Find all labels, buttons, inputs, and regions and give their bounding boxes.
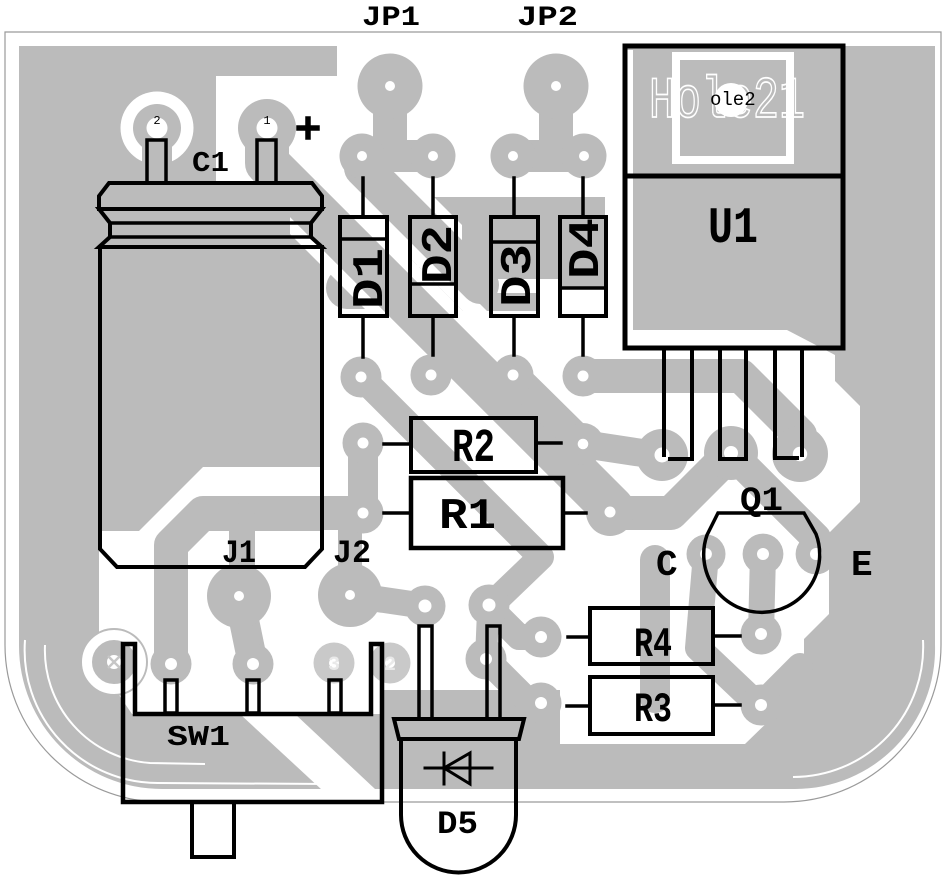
wire J2 pad up to horizontal trace	[338, 524, 362, 592]
diode D4 leads	[581, 178, 585, 355]
U1 tab hole	[714, 83, 748, 117]
pad Q1 E	[796, 534, 837, 575]
switch SW1 outline	[123, 644, 382, 802]
drill cross on mount pad	[108, 656, 120, 668]
pad D2 bottom	[411, 355, 452, 396]
copper pour: bottom band	[240, 690, 750, 789]
LED D5 flange	[394, 719, 524, 739]
clearance: diagonal wedge inside C1	[118, 467, 232, 552]
diode D3 leads	[512, 178, 516, 355]
svg-text:D3: D3	[494, 244, 544, 307]
pad SW1 mount with clearance ring	[80, 628, 148, 696]
svg-text:D4: D4	[562, 218, 612, 279]
pad JP2 top	[524, 54, 589, 119]
capacitor C1 body	[100, 247, 322, 567]
IC U1 pin 2	[720, 348, 746, 459]
white sliver inside U1 left edge	[627, 50, 633, 331]
clearance: pocket around pad 1	[216, 76, 340, 168]
wire JP2 bar	[513, 140, 584, 172]
wire D1 pad to D5-right (V shape)	[361, 377, 541, 607]
clearance: ring around pad 2	[121, 92, 194, 165]
copper pour: bottom-left corner	[19, 580, 321, 789]
clearance: channel below pad1 trace	[290, 208, 620, 564]
svg-text:C: C	[656, 545, 678, 586]
wire Q1 C to R3-right	[698, 554, 757, 704]
svg-text:2: 2	[153, 114, 160, 128]
switch SW1 pin 2	[247, 680, 259, 713]
pad J2	[318, 563, 382, 627]
resistor R2 outline	[411, 418, 536, 472]
copper pour: block around pad 2	[19, 76, 216, 184]
svg-text:R4: R4	[634, 621, 672, 669]
capacitor C1 crimp collar	[99, 209, 322, 247]
wire U1 pin2 to Q1 E	[731, 453, 816, 554]
svg-text:SW1: SW1	[167, 721, 230, 754]
copper pour: U1 block and right column	[625, 46, 935, 789]
pad JP2 right	[562, 134, 607, 179]
wire JP1 trunk	[373, 90, 407, 148]
wire D5-right down stub	[486, 611, 488, 659]
wire D3 pad to R2-right (45deg)	[513, 375, 583, 444]
pad J1	[207, 564, 271, 628]
resistor R1 leads	[384, 511, 586, 515]
svg-text:D2: D2	[415, 225, 465, 284]
svg-text:C1: C1	[192, 147, 229, 180]
pad U1 pin1	[636, 429, 688, 481]
LED D5 lead left	[419, 626, 432, 719]
diode D3 outline	[491, 217, 538, 316]
svg-text:J1: J1	[222, 535, 256, 572]
clearance: thin arc bottom-right	[793, 640, 923, 777]
copper pour: top-left strip	[19, 46, 337, 77]
pad D5 left	[405, 586, 446, 627]
LED D5 lead right	[487, 626, 500, 719]
switch SW1 pin 1	[165, 680, 177, 713]
switch SW1 pin 3	[329, 680, 341, 713]
svg-text:U1: U1	[708, 201, 758, 258]
wire node pad to R3-left	[486, 659, 541, 703]
IC U1 outline	[625, 46, 843, 348]
capacitor C1 lead 1	[257, 140, 276, 183]
svg-text:2: 2	[384, 654, 396, 677]
clearance: thin arc bottom-left inner	[45, 645, 205, 764]
pad R1 right	[586, 488, 634, 536]
clearance: channel above JP1 trace	[336, 99, 462, 249]
pad C1-1	[238, 99, 296, 157]
pad R4 left	[521, 617, 562, 658]
pad JP1 right	[411, 134, 456, 179]
pad JP1 left	[340, 134, 385, 179]
wire D5-right to R4-left	[489, 607, 541, 637]
pad SW1 pin3 (faint)	[314, 643, 355, 684]
pad spare (faint)	[370, 643, 411, 684]
svg-text:ole2: ole2	[710, 89, 756, 111]
pad node A	[466, 639, 507, 680]
pad D3 bottom	[493, 355, 534, 396]
pad U1 pin2	[704, 426, 758, 480]
wire J1 pad up into C1 region	[229, 516, 255, 593]
clearance: strip below trace inside C1	[99, 531, 322, 567]
pad D5 right	[469, 585, 510, 626]
transistor Q1 outline	[704, 513, 820, 612]
svg-text:D1: D1	[346, 248, 396, 309]
svg-text:D5: D5	[437, 806, 478, 843]
diode D2 outline	[410, 217, 456, 316]
svg-text:3: 3	[328, 654, 340, 677]
white strip between D4 and U1	[605, 46, 625, 336]
pad R2 left	[343, 423, 384, 464]
pad D4 bottom	[563, 356, 604, 397]
svg-text:R3: R3	[634, 686, 672, 734]
clearance: channel below JP1 trace	[340, 164, 498, 346]
resistor R4 outline	[590, 608, 713, 664]
svg-text:R1: R1	[439, 492, 496, 542]
copper pour: left column	[19, 76, 99, 606]
wire R2-left to R1-left	[348, 443, 378, 513]
wire J2 to D5-left	[350, 595, 425, 606]
wire U1 pin2 to R1-right	[610, 453, 731, 513]
wire J1 to SW1 pin2	[239, 596, 253, 664]
wire band behind D3 lower	[456, 293, 537, 311]
pad JP2 left	[491, 134, 536, 179]
clearance: channel above pad1 trace	[240, 88, 618, 492]
IC U1 pin 1	[664, 348, 692, 459]
wire SW1 pin1 to R1-left	[171, 513, 363, 664]
svg-text:E: E	[851, 545, 873, 586]
clearance: thin arc bottom-left outer	[25, 640, 330, 784]
label plus	[299, 119, 317, 137]
LED D5 dome	[401, 739, 516, 872]
clearance: channel through SW1 body	[240, 714, 375, 789]
svg-text:J2: J2	[333, 535, 371, 572]
svg-text:1: 1	[263, 114, 270, 128]
pad U1 pin3	[772, 426, 828, 482]
wire stub below C label	[640, 560, 670, 698]
diode D1 outline	[340, 217, 387, 316]
wire JP1 pad to lower band (45deg)	[363, 168, 480, 285]
wire pad1 to R1-right (45deg)	[267, 140, 612, 508]
pad R3 right	[741, 685, 782, 726]
wire Q1 B to R4-right	[761, 554, 763, 634]
resistor R2 leads	[384, 443, 561, 444]
wire D4 pad to U1 pin3	[583, 376, 800, 452]
white strip inside U1 above bottom edge	[626, 331, 788, 346]
pad SW1 pin1	[151, 644, 192, 685]
pad C1-2	[133, 104, 181, 152]
svg-text:Q1: Q1	[740, 483, 783, 521]
wire JP1 bar	[362, 140, 433, 172]
U1 tab inner outline	[676, 56, 790, 160]
pad R3 left	[521, 683, 562, 724]
pad R2 right	[562, 423, 604, 465]
wire JP2 trunk	[539, 90, 573, 148]
diode D1 leads	[361, 178, 365, 357]
wire thick band behind D2-D4	[411, 197, 466, 265]
resistor R3 outline	[590, 677, 713, 734]
diode D4 outline	[560, 217, 606, 316]
resistor R3 leads	[567, 705, 740, 706]
pad JP1 top	[358, 54, 423, 119]
svg-text:JP2: JP2	[517, 3, 578, 34]
capacitor C1 body top cap	[99, 183, 322, 209]
svg-text:R2: R2	[452, 423, 495, 476]
copper pour: C1 capacitor region	[99, 183, 322, 567]
wire band drop behind D4 upper	[560, 197, 605, 288]
pad R1 left	[343, 493, 384, 534]
LED D5 diode symbol	[425, 753, 492, 784]
clearance: strip above trace inside C1	[203, 467, 322, 496]
switch SW1 bottom tab	[192, 802, 234, 857]
resistor R1 outline	[411, 478, 563, 548]
wire band behind D1-D2 lower	[326, 267, 456, 309]
pad SW1 pin2	[233, 644, 274, 685]
diode D2 leads	[431, 178, 435, 355]
capacitor C1 lead 2	[147, 140, 166, 183]
svg-text:JP1: JP1	[362, 3, 420, 34]
wire R3-right to pour	[761, 666, 800, 705]
pad Q1 B	[743, 534, 784, 575]
resistor R4 leads	[568, 636, 740, 637]
pad D1 bottom	[341, 357, 382, 398]
wire R2-right to U1 pin1	[583, 444, 662, 456]
IC U1 pin 3	[775, 348, 802, 458]
wire pad2 to pour stub	[142, 145, 172, 180]
pad R4 right	[741, 614, 782, 655]
pad Q1 C	[687, 535, 726, 574]
